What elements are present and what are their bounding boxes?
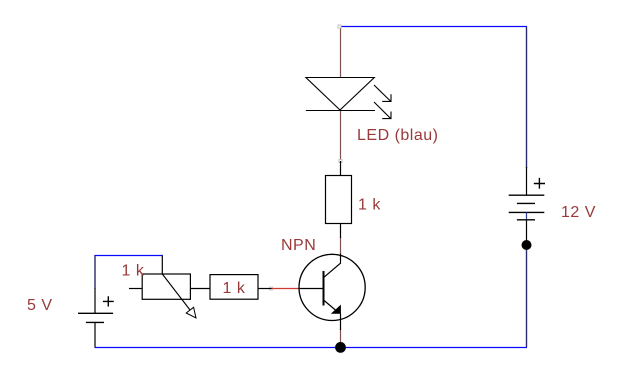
wire base resistor to transistor base (bright red) [271, 288, 299, 290]
pin marker top corner [338, 25, 341, 28]
svg-text:NPN: NPN [281, 237, 316, 254]
resistor R1 pins (black) [340, 161, 342, 176]
svg-text:LED (blau): LED (blau) [357, 127, 438, 144]
wire 5V plus vertical (navy) [94, 255, 96, 289]
battery V2 12V long plate 1 [509, 194, 545, 196]
battery V1 5V bottom lead [94, 322, 96, 347]
resistor R2 body 1 k (base resistor) [210, 275, 258, 300]
battery V2 12V short plate 1 [517, 202, 535, 204]
battery V2 12V short plate 2 [517, 219, 535, 221]
wire 12V minus vertical (navy) to bottom rail [526, 244, 528, 347]
transistor Q1 base pin inside circle [299, 288, 323, 290]
battery V1 5V plus sign [103, 296, 114, 306]
svg-text:1 k: 1 k [358, 197, 381, 214]
transistor Q1 base bar [323, 271, 325, 306]
pin marker base wire [270, 287, 273, 290]
svg-text:5 V: 5 V [27, 297, 53, 314]
wire anode segment (maroon) top net to LED [340, 27, 342, 77]
transistor Q1 collector [324, 254, 341, 278]
svg-text:1 k: 1 k [223, 280, 246, 297]
junction dot emitter/bottom rail [335, 342, 346, 353]
svg-text:1 k: 1 k [122, 263, 145, 280]
wire top net to potentiometer wiper (black) [161, 256, 163, 275]
transistor Q1 base pin outside (black) [258, 288, 272, 290]
wire top net horizontal (blue) from LED anode toward 12V battery [340, 26, 527, 28]
wire bottom rail horizontal (blue) [95, 347, 528, 349]
svg-text:12 V: 12 V [561, 204, 596, 221]
wire potentiometer to base resistor (black) [190, 288, 210, 290]
battery V2 12V bottom lead [526, 220, 528, 244]
battery V2 12V plus sign [534, 178, 545, 189]
wire 5V plus horizontal (blue) to pot wiper [95, 255, 163, 257]
pin marker LED cathode [339, 160, 342, 163]
LED D1 (blau) [306, 78, 391, 119]
wire transistor emitter to bottom junction (maroon) [340, 329, 342, 347]
battery V2 12V long plate 2 [509, 211, 545, 213]
resistor R1 body 1k [326, 176, 352, 224]
potentiometer P1 wiper arrow [162, 274, 193, 315]
battery V2 12V inter-plate lead (navy) [526, 212, 528, 219]
transistor Q1 emitter with arrow [324, 300, 337, 311]
wire top net vertical (navy) down to 12V battery plus [526, 27, 528, 168]
potentiometer P1 body [142, 274, 190, 299]
transistor Q1 circle [299, 254, 365, 320]
battery V1 5V top lead [94, 288, 96, 313]
battery V2 12V top lead [526, 167, 528, 195]
battery V1 5V short plate [86, 321, 104, 323]
junction dot 12V minus to bottom rail [522, 240, 532, 250]
wire LED cathode to resistor R1 (maroon) [340, 111, 342, 160]
wire resistor R1 to transistor collector (maroon) [340, 238, 342, 254]
battery V1 5V long plate [78, 312, 113, 314]
potentiometer P1 left pin [129, 288, 142, 290]
